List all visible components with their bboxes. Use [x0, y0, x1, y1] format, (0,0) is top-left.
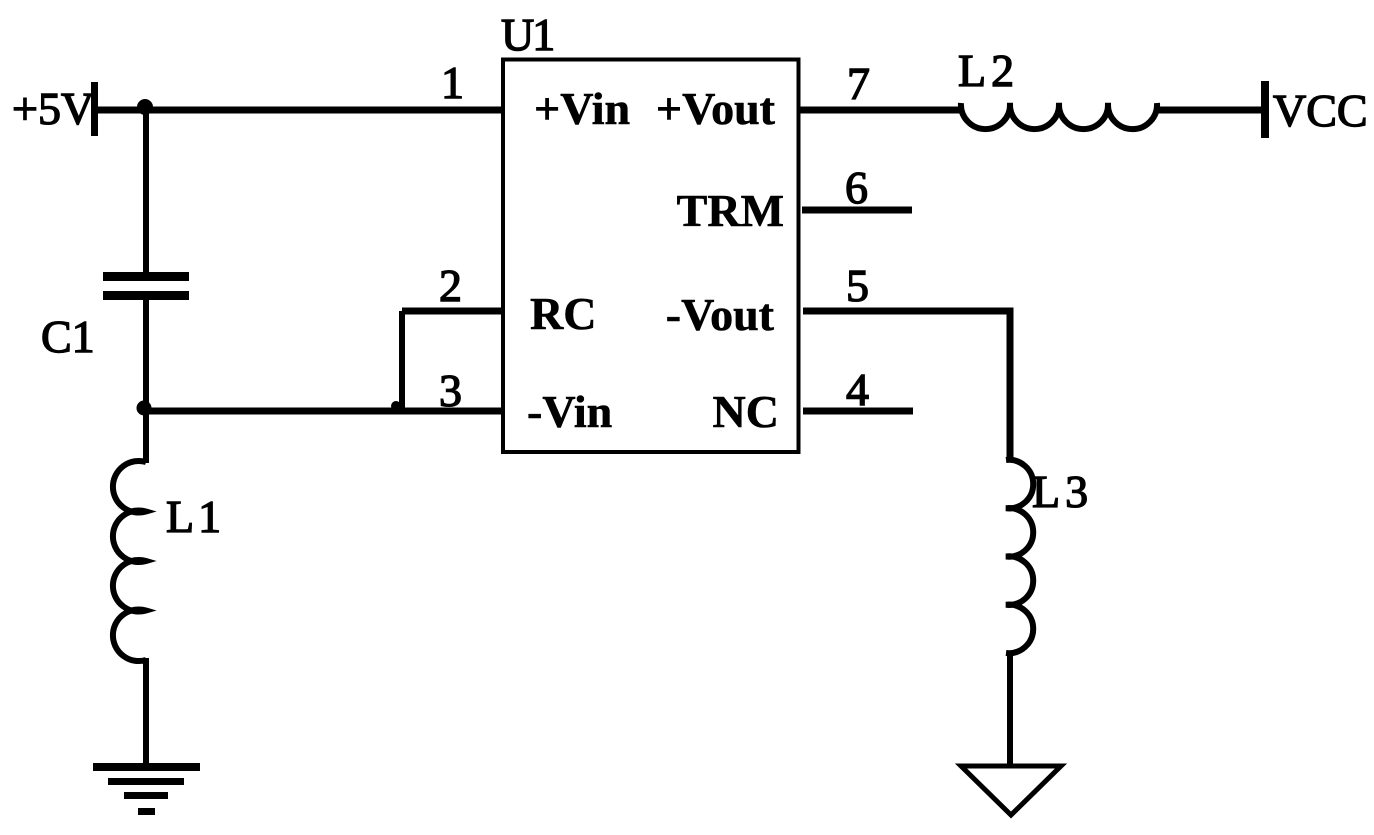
- svg-text:+Vin: +Vin: [534, 83, 630, 134]
- svg-text:1: 1: [441, 57, 464, 108]
- op-amp U1 box: [503, 60, 799, 453]
- inductor L2: [961, 103, 1157, 129]
- svg-text:4: 4: [846, 364, 869, 415]
- ground earth bar 4: [138, 808, 155, 815]
- wire junction B down to L1: [143, 408, 149, 463]
- wire L2 to VCC: [1156, 107, 1263, 114]
- wire pin2 down to pin3: [399, 311, 405, 410]
- svg-text:VCC: VCC: [1273, 85, 1368, 136]
- wire C1 to junction B: [143, 298, 149, 411]
- ground earth bar 3: [124, 792, 168, 799]
- svg-text:+Vout: +Vout: [656, 83, 776, 134]
- ground triangle: [961, 766, 1061, 815]
- wire pin7: [799, 107, 962, 114]
- svg-text:NC: NC: [713, 386, 779, 437]
- svg-text:L2: L2: [958, 45, 1019, 96]
- inductor L3: [1006, 460, 1033, 653]
- svg-text:L3: L3: [1032, 466, 1093, 517]
- svg-text:3: 3: [439, 365, 462, 416]
- svg-text:7: 7: [847, 58, 870, 109]
- wire pin6: [802, 207, 912, 214]
- wire pin1 from +5V to U1: [95, 107, 503, 114]
- svg-text:C1: C1: [41, 311, 95, 362]
- wire junction A down to C1: [143, 107, 149, 274]
- svg-text:-Vout: -Vout: [666, 289, 775, 340]
- wire pin5 and corner down: [803, 311, 1010, 461]
- svg-text:RC: RC: [530, 288, 596, 339]
- svg-text:TRM: TRM: [677, 185, 784, 236]
- svg-text:2: 2: [439, 260, 462, 311]
- wire pin4: [803, 408, 913, 415]
- svg-text:U1: U1: [501, 9, 553, 60]
- svg-text:-Vin: -Vin: [527, 386, 612, 437]
- ground earth bar 1: [93, 763, 200, 771]
- ground earth bar 2: [108, 778, 184, 785]
- junction dot B: [137, 401, 152, 416]
- svg-text:+5V: +5V: [12, 83, 94, 134]
- capacitor C1 top plate: [103, 272, 189, 281]
- wire pin2: [402, 308, 503, 315]
- svg-text:6: 6: [845, 162, 868, 213]
- svg-text:L1: L1: [166, 491, 225, 542]
- wire pin3 -Vin horizontal: [143, 408, 503, 415]
- wire L3 to ground triangle: [1007, 651, 1013, 766]
- wire L1 to ground: [143, 658, 149, 766]
- junction blob at pin3 wire: [391, 401, 401, 411]
- capacitor C1 bottom plate: [103, 291, 189, 300]
- junction dot A: [137, 99, 153, 115]
- svg-text:5: 5: [846, 260, 869, 311]
- node VCC terminal bar: [1261, 81, 1269, 138]
- inductor L1: [113, 461, 146, 661]
- node +5V terminal bar: [91, 82, 98, 136]
